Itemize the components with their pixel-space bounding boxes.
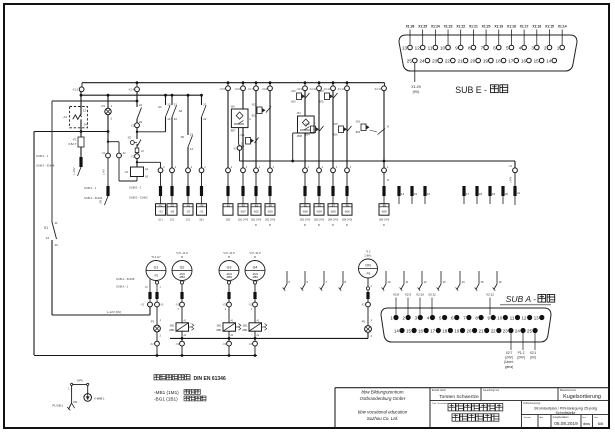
svg-text:-K1: -K1 bbox=[124, 170, 129, 174]
svg-text:20: 20 bbox=[470, 59, 476, 64]
svg-text:-S03: -S03 bbox=[291, 91, 297, 93]
svg-text:1S2: 1S2 bbox=[170, 219, 175, 222]
svg-text:14: 14 bbox=[84, 123, 88, 127]
svg-text:14: 14 bbox=[394, 329, 399, 334]
svg-text:-B08: -B08 bbox=[297, 134, 303, 138]
svg-text:Version: Version bbox=[524, 416, 532, 419]
svg-text:G1: G1 bbox=[154, 265, 159, 269]
svg-text:X1:19: X1:19 bbox=[494, 25, 503, 29]
svg-text:(0V): (0V) bbox=[530, 356, 536, 360]
svg-text:-X1:5: -X1:5 bbox=[219, 88, 225, 91]
svg-text:*2.8 -14 P: *2.8 -14 P bbox=[176, 251, 188, 255]
svg-text:X1:22: X1:22 bbox=[456, 25, 465, 29]
svg-text:-S8: -S8 bbox=[170, 210, 175, 214]
svg-text:13: 13 bbox=[190, 133, 194, 137]
svg-text:B: B bbox=[181, 255, 183, 259]
svg-text:X1:26: X1:26 bbox=[406, 25, 415, 29]
svg-text:10: 10 bbox=[440, 46, 446, 51]
svg-text:*2.8 -34 P: *2.8 -34 P bbox=[249, 251, 261, 255]
svg-text:Ostbrandenburg GmbH: Ostbrandenburg GmbH bbox=[360, 396, 406, 401]
svg-text:22: 22 bbox=[203, 117, 207, 121]
svg-text:Dokumententyp: Dokumententyp bbox=[524, 402, 541, 405]
svg-text:-B1: -B1 bbox=[226, 204, 230, 207]
svg-text:-S3: -S3 bbox=[158, 210, 163, 214]
svg-text:6: 6 bbox=[493, 46, 496, 51]
svg-text:X2:7: X2:7 bbox=[506, 351, 513, 355]
svg-text:17: 17 bbox=[508, 59, 514, 64]
svg-text:bbw Bildungszentrum: bbw Bildungszentrum bbox=[362, 390, 404, 395]
svg-text:19: 19 bbox=[492, 192, 496, 196]
svg-text:24: 24 bbox=[419, 59, 425, 64]
svg-text:-B04: -B04 bbox=[305, 135, 311, 137]
svg-text:-MB1: -MB1 bbox=[216, 329, 222, 332]
svg-text:X2:10: X2:10 bbox=[416, 293, 424, 297]
svg-text:Erstellt durch: Erstellt durch bbox=[432, 389, 447, 392]
svg-text:X1:21: X1:21 bbox=[469, 25, 478, 29]
svg-text:12: 12 bbox=[424, 280, 428, 284]
svg-text:25: 25 bbox=[527, 329, 532, 334]
svg-text:L-9V: L-9V bbox=[102, 169, 106, 175]
svg-text:-S02: -S02 bbox=[355, 122, 361, 124]
svg-text:ber: ber bbox=[583, 416, 586, 419]
svg-text:SUB E -: SUB E - bbox=[455, 85, 487, 95]
svg-text:-2M1: -2M1 bbox=[216, 325, 222, 328]
svg-text:21: 21 bbox=[457, 59, 463, 64]
svg-text:13: 13 bbox=[167, 103, 171, 107]
svg-text:4: 4 bbox=[519, 46, 522, 51]
svg-text:-MB1 (1M1): -MB1 (1M1) bbox=[154, 390, 179, 395]
svg-text:-A1: -A1 bbox=[63, 115, 68, 119]
svg-text:16: 16 bbox=[427, 192, 431, 196]
svg-text:Torsten Schwertze: Torsten Schwertze bbox=[439, 394, 479, 400]
svg-text:1B4 24 B: 1B4 24 B bbox=[328, 219, 339, 222]
svg-text:-B07: -B07 bbox=[240, 210, 246, 214]
svg-text:Bauteilnummer: Bauteilnummer bbox=[560, 389, 576, 392]
svg-text:*5.2: *5.2 bbox=[366, 250, 371, 254]
svg-text:X1:18: X1:18 bbox=[507, 25, 516, 29]
svg-text:gena): gena) bbox=[505, 365, 513, 369]
svg-text:Genehmigt von: Genehmigt von bbox=[483, 389, 500, 392]
svg-text:-B02: -B02 bbox=[251, 116, 257, 118]
svg-text:-X1:2: -X1:2 bbox=[72, 89, 79, 92]
svg-text:-S02: -S02 bbox=[305, 124, 311, 126]
svg-text:SUB A - 1: SUB A - 1 bbox=[36, 154, 49, 158]
svg-text:Gez: Gez bbox=[594, 417, 598, 419]
svg-text:X1:14: X1:14 bbox=[558, 25, 567, 29]
svg-text:-P5: -P5 bbox=[366, 272, 371, 276]
svg-text:18: 18 bbox=[442, 329, 447, 334]
svg-text:B: B bbox=[228, 255, 230, 259]
svg-text:9: 9 bbox=[455, 46, 458, 51]
svg-text:Ausgabedatum: Ausgabedatum bbox=[553, 416, 569, 419]
svg-text:14: 14 bbox=[462, 280, 466, 284]
svg-text:L-24V: L-24V bbox=[510, 176, 513, 183]
svg-text:13: 13 bbox=[443, 280, 447, 284]
svg-text:23: 23 bbox=[503, 329, 508, 334]
svg-text:*5.2-G7: *5.2-G7 bbox=[151, 255, 161, 259]
svg-text:12: 12 bbox=[522, 316, 527, 321]
svg-text:23: 23 bbox=[432, 59, 438, 64]
svg-text:-MB1: -MB1 bbox=[226, 275, 233, 279]
svg-text:1B3 24 B: 1B3 24 B bbox=[314, 219, 325, 222]
svg-text:14: 14 bbox=[190, 147, 194, 151]
svg-text:X1:29: X1:29 bbox=[411, 85, 420, 89]
svg-text:G3: G3 bbox=[227, 265, 232, 269]
svg-text:3: 3 bbox=[531, 46, 534, 51]
svg-text:24: 24 bbox=[515, 329, 520, 334]
svg-text:DIN EN 61346: DIN EN 61346 bbox=[194, 376, 226, 382]
svg-text:-B8: -B8 bbox=[345, 204, 349, 207]
svg-text:-X1:9: -X1:9 bbox=[296, 88, 302, 91]
svg-text:-S8: -S8 bbox=[178, 109, 183, 113]
svg-text:ON: ON bbox=[365, 263, 371, 267]
svg-text:X2:12: X2:12 bbox=[486, 293, 494, 297]
svg-text:-F1: -F1 bbox=[72, 138, 77, 142]
svg-text:-B6: -B6 bbox=[317, 204, 321, 207]
svg-text:21: 21 bbox=[174, 103, 178, 107]
svg-text:X1:25: X1:25 bbox=[418, 25, 427, 29]
svg-text:16: 16 bbox=[521, 59, 527, 64]
svg-text:SUB A -: SUB A - bbox=[506, 294, 537, 304]
svg-text:-B04: -B04 bbox=[316, 210, 322, 214]
svg-text:-B03: -B03 bbox=[267, 210, 273, 214]
svg-text:-B07: -B07 bbox=[230, 129, 236, 133]
svg-text:(9V): (9V) bbox=[413, 90, 420, 94]
svg-text:L-12V (0V): L-12V (0V) bbox=[107, 310, 122, 314]
svg-text:-X1:13: -X1:13 bbox=[374, 88, 382, 91]
svg-text:18: 18 bbox=[479, 192, 483, 196]
svg-text:L9V: L9V bbox=[100, 199, 103, 204]
svg-text:*2.8 -24 P: *2.8 -24 P bbox=[223, 251, 235, 255]
svg-text:-B05: -B05 bbox=[330, 210, 336, 214]
svg-text:-B01: -B01 bbox=[240, 146, 246, 148]
svg-text:1S1: 1S1 bbox=[186, 219, 191, 222]
svg-text:1B2 24 B: 1B2 24 B bbox=[251, 219, 262, 222]
svg-text:PL/GB:1: PL/GB:1 bbox=[53, 404, 64, 408]
svg-text:1B4 24 B: 1B4 24 B bbox=[379, 219, 390, 222]
svg-text:-P5: -P5 bbox=[361, 320, 366, 324]
svg-text:15: 15 bbox=[406, 329, 411, 334]
svg-text:-S05: -S05 bbox=[333, 124, 339, 126]
svg-text:A2: A2 bbox=[145, 175, 149, 179]
svg-text:-S01: -S01 bbox=[240, 135, 246, 137]
svg-text:17: 17 bbox=[466, 192, 470, 196]
svg-text:(Umer-: (Umer- bbox=[504, 360, 514, 364]
svg-text:SUB A - 31402: SUB A - 31402 bbox=[84, 196, 103, 200]
svg-text:bbw vocational education: bbw vocational education bbox=[358, 410, 408, 415]
svg-text:Titel, Zusatztitel: Titel, Zusatztitel bbox=[432, 402, 448, 405]
svg-text:-X1:10: -X1:10 bbox=[309, 88, 317, 91]
svg-text:Schnittstelle: Schnittstelle bbox=[556, 411, 576, 415]
svg-text:1B4 24 B: 1B4 24 B bbox=[342, 219, 353, 222]
svg-text:05.08.2019: 05.08.2019 bbox=[554, 421, 578, 426]
svg-text:12: 12 bbox=[55, 243, 59, 247]
svg-text:11: 11 bbox=[510, 316, 515, 321]
svg-text:-XP5: -XP5 bbox=[76, 378, 83, 382]
svg-text:-S1: -S1 bbox=[199, 210, 204, 214]
svg-text:-S04: -S04 bbox=[319, 91, 325, 93]
svg-text:Kugelsortierung: Kugelsortierung bbox=[563, 394, 601, 400]
svg-text:21: 21 bbox=[203, 103, 207, 107]
svg-text:14: 14 bbox=[401, 192, 405, 196]
svg-text:-X1:12: -X1:12 bbox=[337, 88, 345, 91]
svg-text:12: 12 bbox=[415, 46, 421, 51]
svg-text:13: 13 bbox=[402, 46, 408, 51]
svg-text:-S2: -S2 bbox=[127, 136, 132, 140]
svg-text:K1: K1 bbox=[44, 226, 48, 230]
svg-text:Stromlaufplan / PIN-Belegung 2: Stromlaufplan / PIN-Belegung 25-polig bbox=[534, 406, 597, 410]
svg-text:1B5: 1B5 bbox=[226, 219, 231, 222]
svg-text:-X1:8: -X1:8 bbox=[261, 88, 267, 91]
svg-text:21: 21 bbox=[479, 329, 484, 334]
svg-text:19: 19 bbox=[454, 329, 459, 334]
svg-text:22: 22 bbox=[174, 117, 178, 121]
svg-text:-MB1: -MB1 bbox=[169, 329, 175, 332]
svg-text:15: 15 bbox=[481, 280, 485, 284]
svg-text:10: 10 bbox=[388, 280, 392, 284]
svg-text:1: 1 bbox=[557, 46, 560, 51]
svg-text:-S2: -S2 bbox=[170, 204, 174, 207]
svg-text:1B1 24 B: 1B1 24 B bbox=[238, 219, 249, 222]
svg-text:-P3: -P3 bbox=[150, 320, 155, 324]
svg-text:22: 22 bbox=[139, 120, 143, 124]
svg-text:-B08: -B08 bbox=[302, 210, 308, 214]
svg-text:11: 11 bbox=[428, 46, 433, 51]
svg-text:G4: G4 bbox=[253, 265, 258, 269]
svg-text:-MB1: -MB1 bbox=[252, 275, 259, 279]
svg-text:-S3: -S3 bbox=[157, 105, 162, 109]
svg-text:-B2: -B2 bbox=[241, 204, 245, 207]
svg-text:19: 19 bbox=[483, 59, 489, 64]
svg-text:A1: A1 bbox=[145, 167, 149, 171]
svg-text:-B4: -B4 bbox=[268, 204, 272, 207]
svg-text:X2:9: X2:9 bbox=[405, 293, 412, 297]
svg-text:16: 16 bbox=[499, 280, 503, 284]
svg-text:PE: PE bbox=[74, 400, 78, 404]
svg-text:11: 11 bbox=[406, 280, 409, 284]
svg-text:-B4: -B4 bbox=[231, 105, 236, 109]
svg-text:G2: G2 bbox=[180, 265, 185, 269]
svg-text:2: 2 bbox=[544, 46, 547, 51]
svg-text:13: 13 bbox=[83, 109, 87, 113]
svg-text:15: 15 bbox=[414, 192, 418, 196]
svg-text:-B02: -B02 bbox=[253, 210, 259, 214]
svg-text:5: 5 bbox=[506, 46, 509, 51]
svg-text:dws: dws bbox=[583, 421, 590, 426]
svg-text:-B03: -B03 bbox=[291, 102, 297, 104]
svg-text:(24V): (24V) bbox=[517, 356, 525, 360]
svg-text:1K1: 1K1 bbox=[158, 219, 163, 222]
svg-text:-B06: -B06 bbox=[344, 210, 350, 214]
svg-text:11: 11 bbox=[55, 221, 58, 225]
svg-text:-B5: -B5 bbox=[303, 204, 307, 207]
svg-text:1B3 24 B: 1B3 24 B bbox=[300, 219, 311, 222]
svg-text:22: 22 bbox=[445, 59, 451, 64]
svg-text:-X1:7: -X1:7 bbox=[247, 88, 253, 91]
svg-text:X2:11: X2:11 bbox=[428, 293, 436, 297]
svg-text:-S5: -S5 bbox=[180, 135, 185, 139]
svg-text:X2:8: X2:8 bbox=[393, 293, 400, 297]
svg-text:-B09: -B09 bbox=[381, 210, 387, 214]
svg-text:SUB E - 1: SUB E - 1 bbox=[129, 186, 142, 190]
svg-text:X-M88:1: X-M88:1 bbox=[94, 397, 105, 401]
svg-text:SUB A - 1: SUB A - 1 bbox=[116, 285, 129, 289]
svg-text:20: 20 bbox=[505, 192, 509, 196]
svg-text:-X1:11: -X1:11 bbox=[323, 88, 331, 91]
svg-text:X1:15: X1:15 bbox=[545, 25, 554, 29]
svg-text:-2M1: -2M1 bbox=[242, 325, 248, 328]
svg-text:-MB1: -MB1 bbox=[179, 275, 186, 279]
svg-text:-BG1 (1B1): -BG1 (1B1) bbox=[154, 396, 178, 401]
svg-text:14: 14 bbox=[167, 117, 171, 121]
svg-text:8: 8 bbox=[468, 46, 471, 51]
svg-text:1B2 24 B: 1B2 24 B bbox=[265, 219, 276, 222]
svg-text:14: 14 bbox=[546, 59, 552, 64]
svg-text:SUB E - 31402: SUB E - 31402 bbox=[129, 196, 148, 200]
svg-text:-B08: -B08 bbox=[355, 132, 361, 134]
svg-text:P1-2: P1-2 bbox=[518, 351, 525, 355]
svg-text:-X1:4: -X1:4 bbox=[128, 89, 135, 92]
svg-text:-B06: -B06 bbox=[333, 135, 339, 137]
svg-text:X1:20: X1:20 bbox=[482, 25, 491, 29]
svg-text:X1:16: X1:16 bbox=[532, 25, 541, 29]
svg-text:-B7: -B7 bbox=[331, 204, 335, 207]
svg-text:-B05: -B05 bbox=[319, 102, 325, 104]
svg-text:-2M1: -2M1 bbox=[169, 325, 175, 328]
svg-text:1B1: 1B1 bbox=[199, 219, 204, 222]
svg-text:2.8H1: 2.8H1 bbox=[364, 254, 372, 258]
svg-text:16: 16 bbox=[418, 329, 423, 334]
svg-text:7: 7 bbox=[481, 46, 484, 51]
svg-text:17: 17 bbox=[430, 329, 435, 334]
svg-text:14: 14 bbox=[46, 236, 50, 240]
svg-text:X1:17: X1:17 bbox=[520, 25, 529, 29]
svg-text:(24V): (24V) bbox=[505, 356, 513, 360]
svg-text:21: 21 bbox=[517, 191, 521, 195]
svg-text:13: 13 bbox=[534, 316, 539, 321]
svg-text:-X1:6: -X1:6 bbox=[234, 88, 240, 91]
svg-text:-MB1: -MB1 bbox=[242, 329, 248, 332]
svg-text:-X5: -X5 bbox=[186, 204, 190, 207]
svg-text:-S5: -S5 bbox=[186, 210, 191, 214]
svg-text:X1:24: X1:24 bbox=[431, 25, 440, 29]
svg-text:B: B bbox=[254, 255, 256, 259]
svg-text:15: 15 bbox=[534, 59, 540, 64]
svg-text:-S02: -S02 bbox=[251, 105, 257, 107]
svg-text:-X6: -X6 bbox=[200, 204, 204, 207]
svg-text:SUB A - 1: SUB A - 1 bbox=[84, 186, 97, 190]
svg-text:-P1: -P1 bbox=[101, 104, 106, 108]
svg-text:25: 25 bbox=[407, 59, 413, 64]
svg-text:L-24V: L-24V bbox=[72, 167, 76, 174]
svg-text:X2:1: X2:1 bbox=[530, 351, 537, 355]
svg-text:-P2: -P2 bbox=[154, 274, 159, 278]
svg-text:10: 10 bbox=[497, 316, 502, 321]
svg-text:6/6: 6/6 bbox=[598, 421, 604, 426]
svg-text:0.8A T: 0.8A T bbox=[68, 142, 76, 146]
svg-text:SUB A - 31408: SUB A - 31408 bbox=[116, 277, 135, 281]
svg-text:-B3: -B3 bbox=[254, 204, 258, 207]
svg-text:-K1: -K1 bbox=[159, 204, 163, 207]
svg-text:20: 20 bbox=[467, 329, 472, 334]
svg-text:-B4: -B4 bbox=[297, 111, 302, 115]
svg-text:Suzhou Co. Ltd.: Suzhou Co. Ltd. bbox=[367, 416, 399, 421]
svg-text:21: 21 bbox=[139, 103, 143, 107]
svg-text:X1:23: X1:23 bbox=[444, 25, 453, 29]
svg-text:22: 22 bbox=[491, 329, 496, 334]
svg-text:-B9: -B9 bbox=[382, 204, 386, 207]
svg-text:18: 18 bbox=[496, 59, 502, 64]
